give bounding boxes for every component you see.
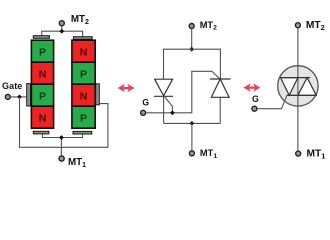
svg-text:P: P	[80, 112, 87, 124]
node gate junction	[17, 94, 22, 99]
svg-text:N: N	[39, 68, 47, 80]
terminal MT1 (right)	[296, 151, 301, 156]
svg-text:MT1: MT1	[307, 148, 326, 160]
terminal MT1 (middle)	[189, 151, 194, 156]
node MT1 junction (middle)	[189, 121, 194, 126]
svg-text:G: G	[252, 94, 259, 104]
svg-text:P: P	[39, 46, 46, 58]
TRIAC top bar	[281, 77, 311, 79]
node MT1 junction (left diagram)	[59, 135, 64, 140]
svg-text:N: N	[80, 90, 88, 102]
wire gate to plate	[10, 96, 26, 98]
TRIAC triangle left (pointing down)	[281, 78, 298, 96]
wire MT2-MT1 lead through circle (right)	[297, 28, 299, 151]
terminal Gate	[5, 94, 10, 99]
wire top bus (middle)	[164, 49, 221, 79]
svg-text:G: G	[142, 98, 149, 108]
thyristor SCR2 (right, pointing up)	[210, 79, 231, 97]
node G junction	[170, 110, 175, 115]
terminal MT2 (left diagram)	[59, 21, 64, 26]
wire MT2 bus (left diagram)	[42, 26, 83, 37]
layer P2 left stack	[31, 84, 53, 106]
wire outer loop (gate to N4 side plate)	[20, 97, 108, 147]
terminal G (middle)	[141, 110, 146, 115]
wire MT1 lead (middle)	[191, 123, 193, 150]
node MT2 junction (left diagram)	[59, 29, 64, 34]
svg-text:N: N	[80, 46, 88, 58]
layer P3 right stack	[72, 62, 95, 84]
thyristor SCR1 (left, pointing down)	[154, 79, 173, 96]
svg-text:P: P	[80, 68, 87, 80]
wire SCR2 anode to bottom bus	[219, 97, 221, 123]
svg-text:MT2: MT2	[71, 14, 89, 26]
terminal MT2 (middle)	[189, 24, 194, 29]
layer N4 right stack	[72, 84, 95, 106]
svg-text:N: N	[39, 112, 47, 124]
svg-text:P: P	[39, 90, 46, 102]
contact plate bottom-left stack	[33, 131, 49, 134]
svg-text:MT1: MT1	[68, 157, 86, 169]
layer N1 left stack	[31, 62, 53, 84]
terminal MT2 (right)	[295, 23, 300, 28]
svg-text:Gate: Gate	[2, 81, 22, 91]
wire G to SCR2 gate	[146, 71, 220, 113]
contact plate gate (left side of P2)	[27, 84, 31, 106]
contact plate top-left stack	[33, 36, 49, 39]
TRIAC bottom bar	[287, 94, 317, 96]
terminal MT1 (left diagram)	[59, 156, 64, 161]
wire MT2 lead (middle)	[191, 29, 193, 50]
layer N3 right stack	[72, 40, 95, 62]
symbol red double arrow 2	[243, 83, 260, 92]
svg-text:MT2: MT2	[200, 20, 217, 32]
svg-text:MT2: MT2	[306, 20, 325, 32]
terminal G (right)	[252, 106, 257, 111]
wire MT1 bus (left diagram)	[43, 134, 83, 156]
wire SCR1 gate lead	[165, 97, 173, 113]
wire SCR1 cathode to bottom bus	[163, 96, 165, 123]
contact plate top-right stack	[73, 37, 92, 40]
symbol red double arrow 1	[118, 84, 135, 93]
TRIAC body circle	[278, 66, 318, 106]
node MT2 junction (middle)	[189, 47, 194, 52]
wire bottom bus (middle)	[164, 122, 221, 124]
layer N2 left stack	[31, 106, 53, 128]
wire G lead (right)	[257, 96, 287, 109]
layer P4 right stack	[72, 106, 95, 128]
TRIAC triangle right (pointing up)	[298, 78, 316, 96]
contact plate right side of N4	[96, 84, 100, 105]
svg-text:MT1: MT1	[200, 148, 217, 160]
layer P1 left stack	[31, 40, 53, 62]
contact plate bottom-right stack	[73, 131, 92, 134]
